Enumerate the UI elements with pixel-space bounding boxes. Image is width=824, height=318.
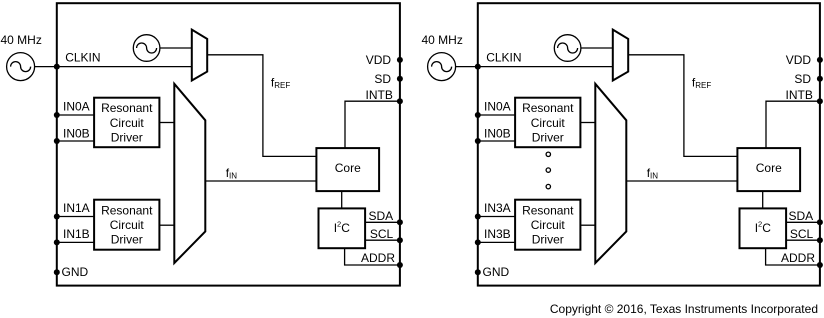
node IN1B junction — [54, 239, 60, 245]
pin label SD — [794, 72, 811, 86]
wire IN1A to driver 1 — [57, 216, 94, 218]
block I2C interface — [319, 208, 366, 248]
svg-text:CLKIN: CLKIN — [486, 51, 521, 65]
svg-text:INTB: INTB — [786, 88, 813, 102]
pin label VDD — [786, 53, 812, 67]
svg-text:Circuit: Circuit — [531, 218, 566, 232]
svg-text:SCL: SCL — [790, 227, 814, 241]
svg-text:GND: GND — [483, 265, 510, 279]
node IN0A junction — [54, 112, 60, 118]
node INTB junction — [817, 98, 823, 104]
svg-text:Driver: Driver — [532, 130, 564, 144]
node SDA junction — [817, 219, 823, 225]
svg-text:SDA: SDA — [369, 209, 394, 223]
left diagram: 2-channel device block diagram — [1, 3, 403, 285]
wire CLKIN to mux M1 — [57, 66, 192, 68]
svg-text:INTB: INTB — [366, 88, 393, 102]
wire INTB to Core — [766, 101, 820, 148]
net label fREF — [271, 75, 290, 90]
svg-text:IN1A: IN1A — [63, 201, 90, 215]
pin label INTB — [786, 88, 813, 102]
node IN1A junction — [54, 214, 60, 220]
svg-text:Resonant: Resonant — [101, 101, 153, 115]
node SDA junction — [397, 219, 403, 225]
pin label IN0A — [484, 100, 511, 114]
mux M2 input channel select — [595, 84, 626, 263]
wire SCL I2C to pin — [786, 239, 820, 241]
wire fREF mux M1 to Core — [628, 55, 737, 157]
node CLKIN junction — [54, 64, 60, 70]
wire ADDR I2C to pin — [766, 248, 820, 265]
svg-text:SD: SD — [794, 72, 811, 86]
wire fIN mux M2 to Core — [205, 180, 316, 182]
pin label IN3A — [484, 201, 511, 215]
svg-text:ADDR: ADDR — [781, 251, 815, 265]
pin label IN0A — [63, 100, 90, 114]
mux M2 input channel select — [174, 84, 205, 263]
node IN0B junction — [475, 138, 481, 144]
pin label CLKIN — [486, 51, 521, 65]
svg-text:Circuit: Circuit — [110, 218, 145, 232]
svg-text:IN0B: IN0B — [63, 126, 90, 140]
node SD junction — [817, 76, 823, 82]
node CLKIN junction — [475, 64, 481, 70]
svg-text:SD: SD — [374, 72, 391, 86]
block Resonant Circuit Driver 1 — [515, 200, 580, 250]
wire internal oscillator to mux M1 — [581, 47, 613, 49]
wire IN0A to driver 0 — [478, 114, 515, 116]
block Resonant Circuit Driver 1 — [94, 200, 159, 250]
pin label CLKIN — [65, 51, 100, 65]
wire oscillator to CLKIN pin — [456, 66, 478, 68]
svg-text:Resonant: Resonant — [522, 203, 574, 217]
svg-text:ADDR: ADDR — [361, 251, 395, 265]
pin label SCL — [790, 227, 814, 241]
node IN3B junction — [475, 239, 481, 245]
pin label INTB — [366, 88, 393, 102]
net label fREF — [692, 75, 711, 90]
IC outer boundary box — [478, 3, 820, 285]
wire oscillator to CLKIN pin — [35, 66, 57, 68]
svg-text:Core: Core — [335, 161, 361, 175]
node INTB junction — [397, 98, 403, 104]
IC outer boundary box — [57, 3, 400, 285]
wire driver 1 to mux M2 — [159, 224, 174, 226]
node SCL junction — [397, 237, 403, 243]
svg-text:SCL: SCL — [370, 227, 394, 241]
value label 40 MHz — [1, 33, 42, 47]
mux M1 reference clock select — [192, 30, 207, 81]
block Resonant Circuit Driver 0 — [515, 98, 580, 148]
svg-text:Circuit: Circuit — [531, 116, 566, 130]
copyright notice — [550, 302, 818, 316]
pin label VDD — [366, 53, 392, 67]
svg-text:CLKIN: CLKIN — [65, 51, 100, 65]
pin label SD — [374, 72, 391, 86]
wire IN3B to driver 1 — [478, 241, 515, 243]
wire SDA I2C to pin — [365, 221, 400, 223]
mux M1 reference clock select — [613, 30, 628, 81]
pin label ADDR — [781, 251, 815, 265]
wire IN1B to driver 1 — [57, 241, 94, 243]
svg-text:VDD: VDD — [366, 53, 392, 67]
wire Core to I2C — [762, 191, 764, 208]
svg-text:VDD: VDD — [786, 53, 812, 67]
node ADDR junction — [397, 262, 403, 268]
svg-text:I2C: I2C — [755, 219, 772, 235]
net label fIN — [647, 166, 659, 181]
svg-text:Resonant: Resonant — [101, 203, 153, 217]
node ADDR junction — [817, 262, 823, 268]
block Core — [737, 148, 800, 191]
svg-text:40 MHz: 40 MHz — [422, 33, 463, 47]
wire Core to I2C — [341, 191, 343, 208]
svg-text:IN0B: IN0B — [484, 126, 511, 140]
oscillator external 40 MHz source — [428, 53, 456, 81]
pin label ADDR — [361, 251, 395, 265]
svg-text:Driver: Driver — [111, 233, 143, 247]
svg-text:Driver: Driver — [111, 130, 143, 144]
wire driver 0 to mux M2 — [159, 122, 174, 124]
node VDD junction — [817, 57, 823, 63]
pin label SDA — [789, 209, 814, 223]
wire driver 1 to mux M2 — [580, 224, 595, 226]
pin label SCL — [370, 227, 394, 241]
wire SCL I2C to pin — [365, 239, 400, 241]
pin label IN0B — [63, 126, 90, 140]
svg-text:IN3B: IN3B — [484, 227, 511, 241]
svg-text:IN3A: IN3A — [484, 201, 511, 215]
svg-text:fREF: fREF — [271, 75, 290, 90]
block Resonant Circuit Driver 0 — [94, 98, 159, 148]
wire IN0A to driver 0 — [57, 114, 94, 116]
oscillator internal reference — [554, 35, 581, 62]
svg-text:fREF: fREF — [692, 75, 711, 90]
oscillator external 40 MHz source — [7, 53, 35, 81]
node SCL junction — [817, 237, 823, 243]
wire IN0B to driver 0 — [57, 140, 94, 142]
wire internal oscillator to mux M1 — [160, 47, 192, 49]
right diagram: 4-channel device block diagram — [422, 3, 823, 285]
wire SDA I2C to pin — [786, 221, 820, 223]
node SD junction — [397, 76, 403, 82]
pin label IN1B — [63, 227, 90, 241]
net label fIN — [226, 166, 238, 181]
svg-text:SDA: SDA — [789, 209, 814, 223]
value label 40 MHz — [422, 33, 463, 47]
svg-text:fIN: fIN — [647, 166, 659, 181]
pin label GND — [483, 265, 510, 279]
oscillator internal reference — [133, 35, 160, 62]
wire IN0B to driver 0 — [478, 140, 515, 142]
pin label IN0B — [484, 126, 511, 140]
svg-text:40 MHz: 40 MHz — [1, 33, 42, 47]
node VDD junction — [397, 57, 403, 63]
svg-text:Circuit: Circuit — [110, 116, 145, 130]
block I2C interface — [740, 208, 787, 248]
node GND junction — [475, 269, 481, 275]
node IN3A junction — [475, 214, 481, 220]
svg-text:Resonant: Resonant — [522, 101, 574, 115]
svg-text:Copyright © 2016, Texas Instru: Copyright © 2016, Texas Instruments Inco… — [550, 302, 818, 316]
svg-text:I2C: I2C — [334, 219, 351, 235]
pin label SDA — [369, 209, 394, 223]
svg-text:IN1B: IN1B — [63, 227, 90, 241]
block Core — [316, 148, 379, 191]
wire fREF mux M1 to Core — [207, 55, 316, 157]
node IN0B junction — [54, 138, 60, 144]
pin label IN1A — [63, 201, 90, 215]
svg-text:Core: Core — [756, 161, 782, 175]
wire IN3A to driver 1 — [478, 216, 515, 218]
svg-text:IN0A: IN0A — [63, 100, 90, 114]
svg-text:Driver: Driver — [532, 233, 564, 247]
node GND junction — [54, 269, 60, 275]
wire CLKIN to mux M1 — [478, 66, 613, 68]
node IN0A junction — [475, 112, 481, 118]
wire fIN mux M2 to Core — [626, 180, 737, 182]
svg-text:IN0A: IN0A — [484, 100, 511, 114]
wire INTB to Core — [345, 101, 400, 148]
wire driver 0 to mux M2 — [580, 122, 595, 124]
wire ADDR I2C to pin — [345, 248, 400, 265]
pin label GND — [62, 265, 89, 279]
svg-text:fIN: fIN — [226, 166, 238, 181]
ellipsis more channels dots — [546, 152, 550, 189]
pin label IN3B — [484, 227, 511, 241]
svg-text:GND: GND — [62, 265, 89, 279]
